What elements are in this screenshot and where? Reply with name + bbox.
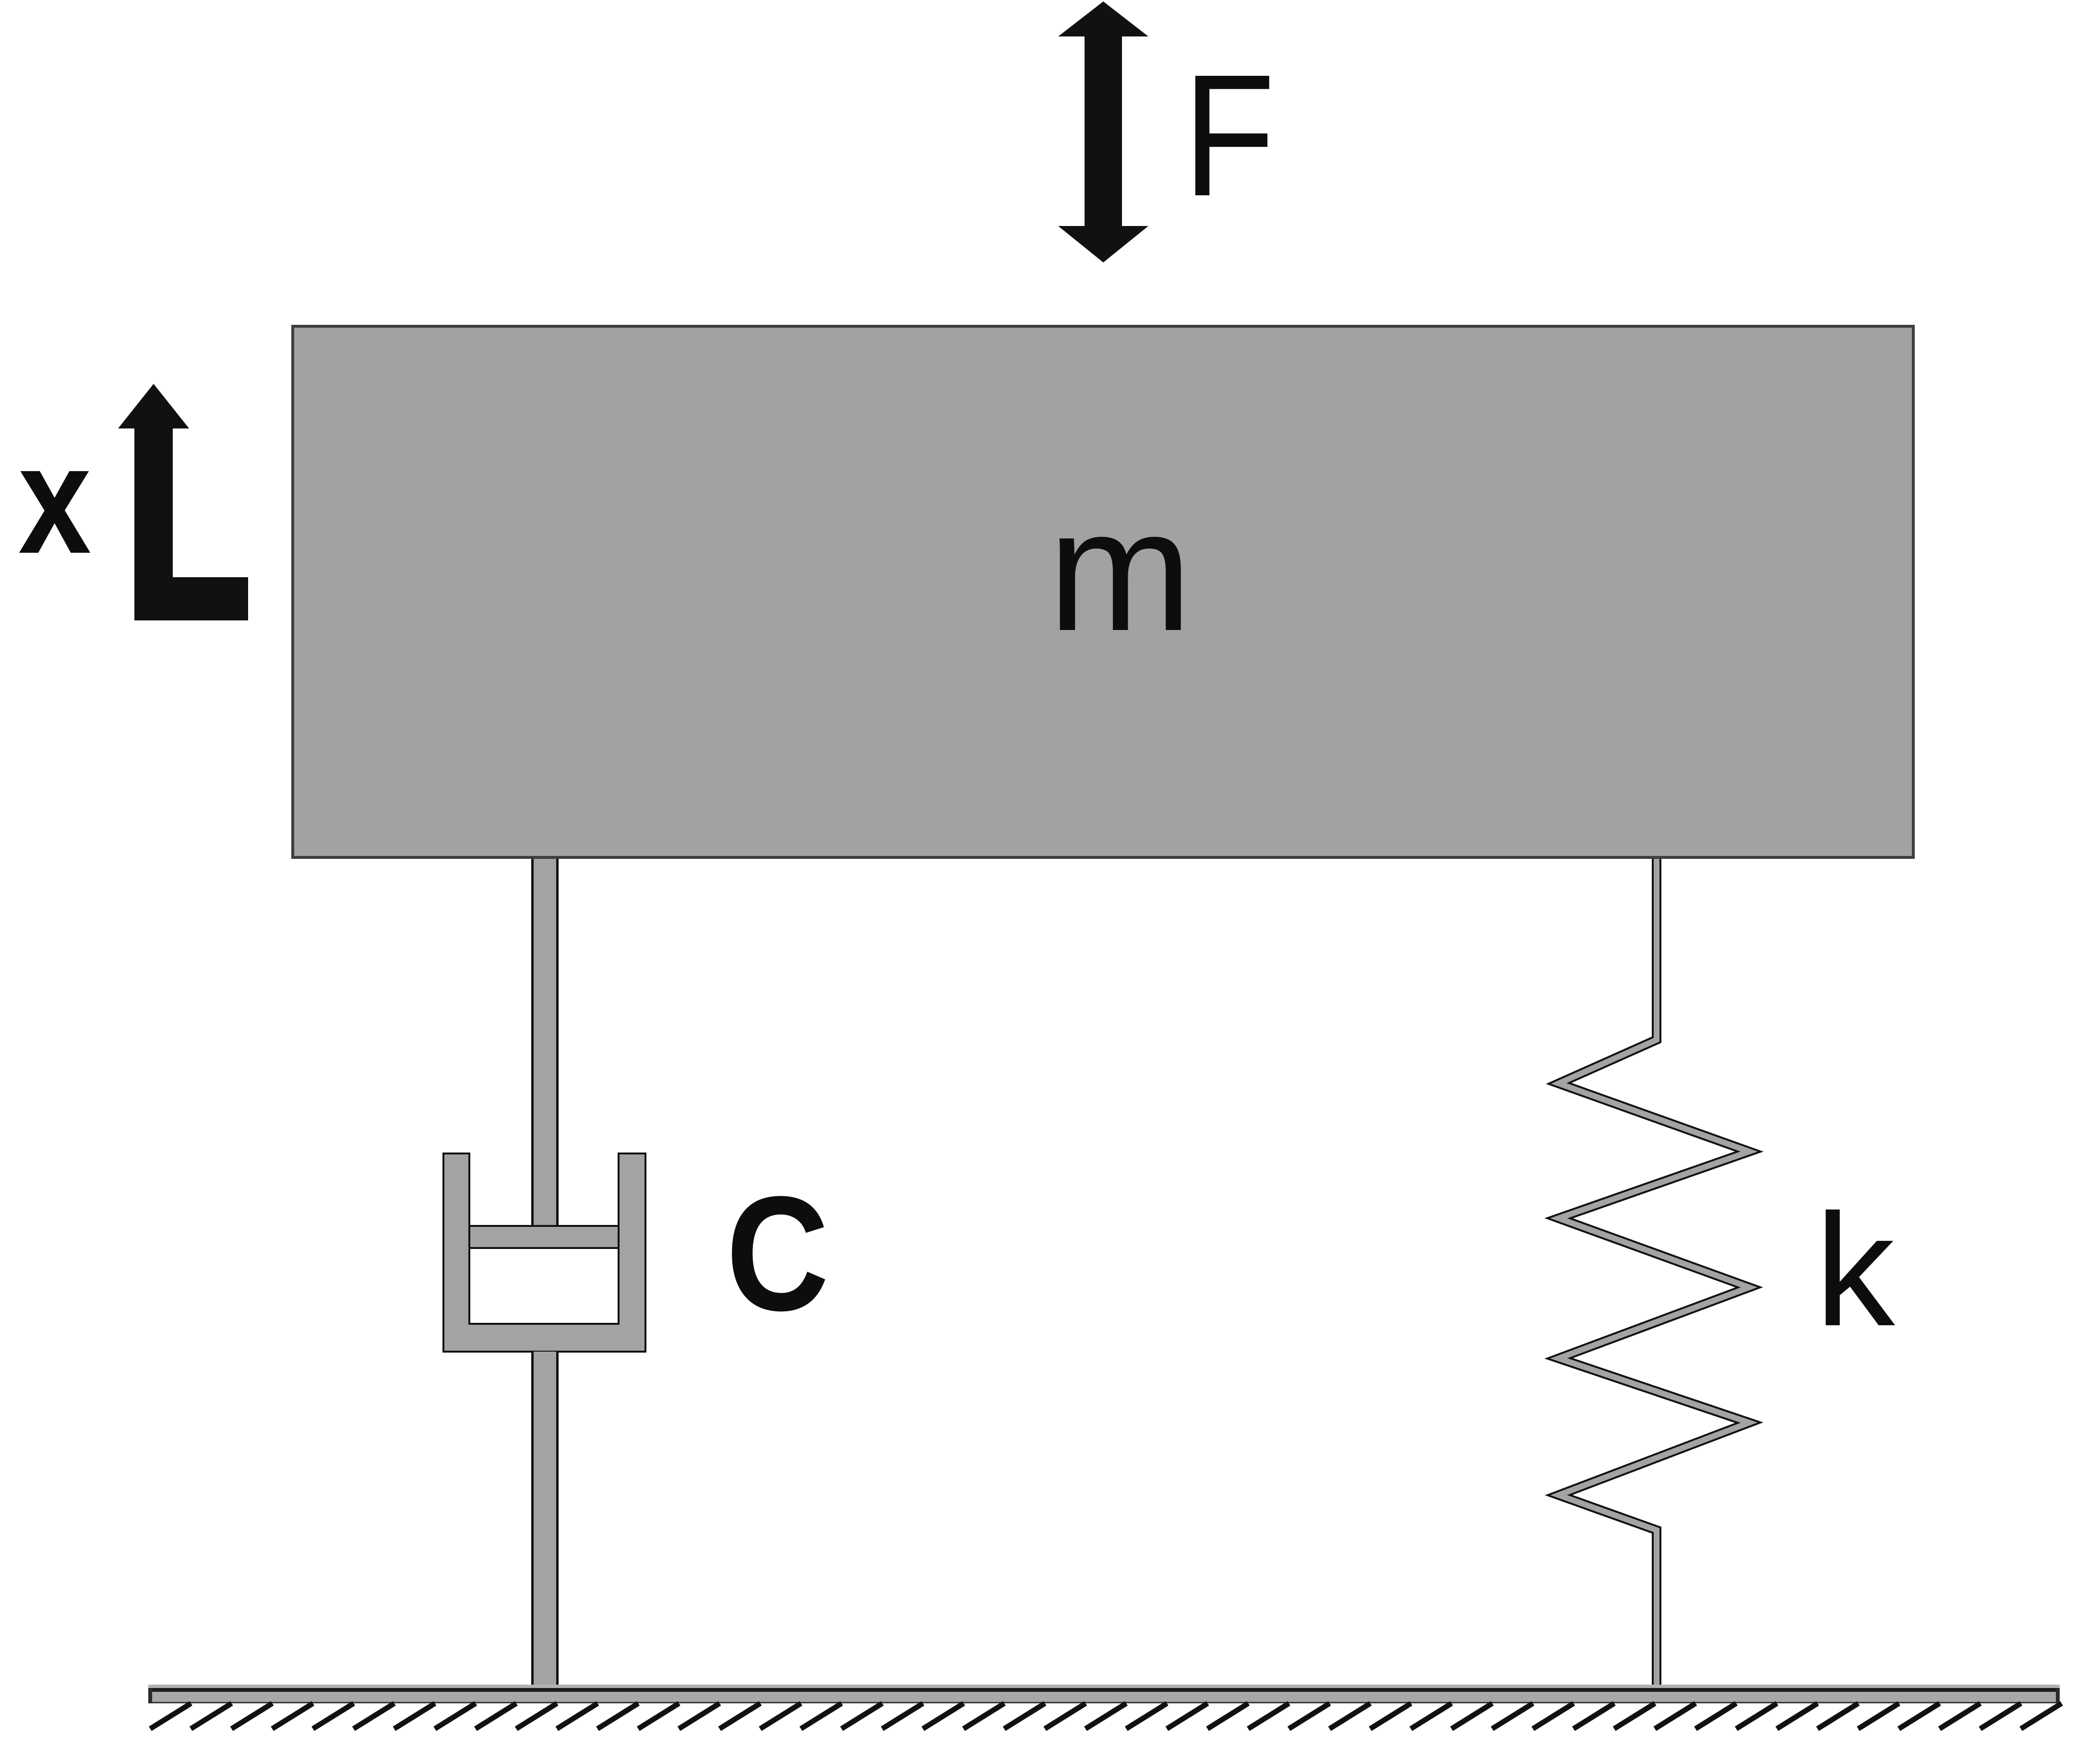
x-axis arrow (L-shaped with arrowhead) bbox=[118, 384, 248, 620]
svg-text:m: m bbox=[1048, 473, 1193, 667]
mass block m bbox=[293, 326, 1913, 857]
damper cylinder (cup) bbox=[443, 1153, 645, 1352]
ground bar bbox=[148, 1685, 2060, 1703]
damper upper rod bbox=[531, 859, 559, 1227]
force arrow F (double-headed vertical arrow) bbox=[1058, 1, 1148, 262]
svg-text:x: x bbox=[18, 413, 92, 586]
ground hatching bbox=[150, 1703, 2062, 1729]
damper lower rod bbox=[531, 1352, 559, 1688]
spring k bbox=[1559, 859, 1749, 1688]
svg-text:k: k bbox=[1815, 1181, 1897, 1359]
svg-text:C: C bbox=[726, 1162, 829, 1344]
svg-text:F: F bbox=[1183, 38, 1275, 232]
damper piston plate bbox=[469, 1226, 619, 1248]
